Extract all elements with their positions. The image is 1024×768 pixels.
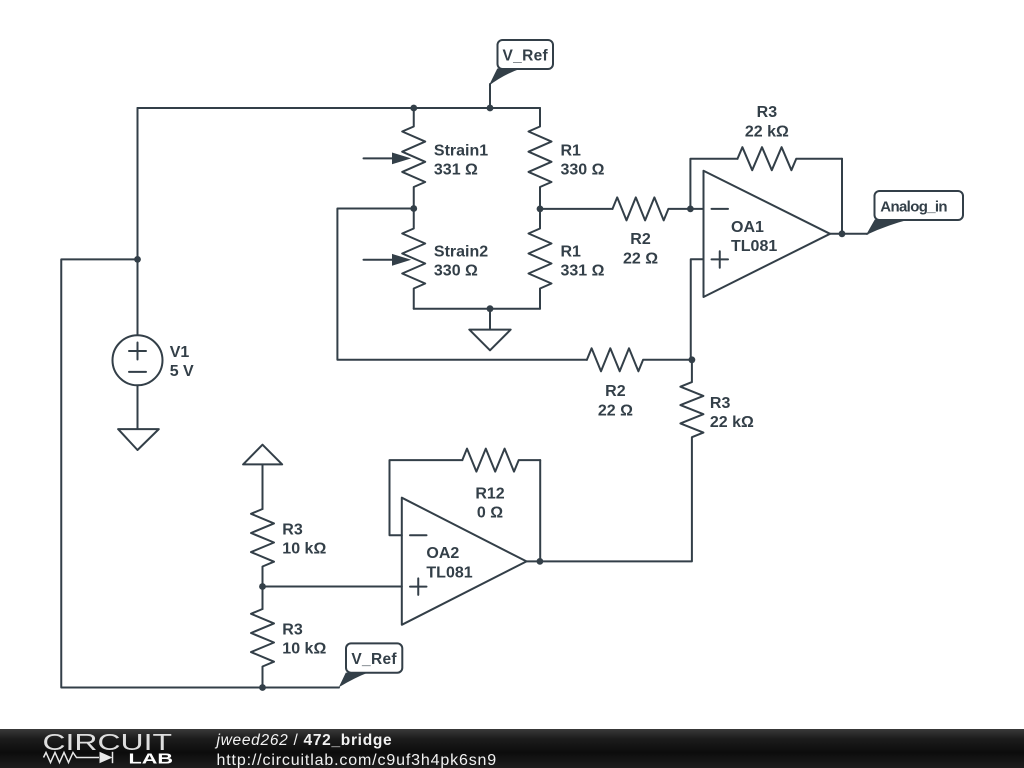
svg-text:Strain2: Strain2	[434, 243, 488, 260]
svg-text:330 Ω: 330 Ω	[434, 263, 478, 280]
resistor R3 10k upper	[251, 509, 274, 609]
flag box V_Ref top	[498, 40, 554, 69]
wire bridge mid-right to R2	[540, 208, 613, 210]
svg-text:R2: R2	[630, 231, 651, 248]
wire V_Ref stub	[489, 84, 491, 108]
op-amp OA1 plus symbol	[712, 251, 729, 268]
node dot top-left	[410, 105, 417, 112]
wire OA2 feedback loop	[390, 460, 463, 535]
node dot plus/R3	[689, 356, 696, 363]
resistor R12	[462, 449, 540, 472]
svg-text:jweed262 / 472_bridge: jweed262 / 472_bridge	[215, 732, 393, 749]
svg-text:22 kΩ: 22 kΩ	[710, 414, 754, 431]
resistor R2 upper	[613, 197, 704, 220]
svg-text:R3: R3	[282, 622, 303, 639]
flag pointer Analog_in	[866, 220, 909, 236]
svg-text:Analog_in: Analog_in	[880, 198, 947, 215]
svg-text:22 kΩ: 22 kΩ	[745, 123, 789, 140]
svg-text:R3: R3	[710, 395, 731, 412]
svg-text:http://circuitlab.com/c9uf3h4p: http://circuitlab.com/c9uf3h4pk6sn9	[217, 752, 498, 768]
resistor R3 22k vertical	[540, 360, 704, 562]
V1 minus symbol	[129, 371, 146, 373]
op-amp OA2 minus symbol	[410, 534, 427, 536]
arrowhead Strain2	[392, 254, 411, 266]
logo resistor-diode squiggle	[44, 752, 113, 763]
ground V1 triangle	[118, 429, 159, 450]
svg-text:OA2: OA2	[426, 545, 459, 562]
footer bar	[0, 729, 1024, 768]
svg-text:LAB: LAB	[129, 750, 174, 767]
node dot bottom rail	[259, 684, 266, 691]
wire R12 down to output node	[539, 460, 541, 561]
svg-text:R1: R1	[561, 142, 582, 159]
supply up arrow	[243, 445, 282, 465]
wire supply arrow stem	[262, 464, 264, 509]
resistor R2 lower	[587, 348, 692, 371]
op-amp OA1 minus symbol	[712, 208, 729, 210]
svg-text:22 Ω: 22 Ω	[598, 402, 633, 419]
wire V1 bottom to ground	[137, 385, 139, 429]
op-amp OA2 body	[402, 498, 527, 625]
wire OA2 plus input	[263, 586, 402, 588]
svg-text:10 kΩ: 10 kΩ	[282, 641, 326, 658]
svg-text:V_Ref: V_Ref	[351, 651, 397, 668]
svg-text:22 Ω: 22 Ω	[623, 250, 658, 267]
node dot OA2 output	[537, 558, 544, 565]
wire top rail	[138, 107, 541, 109]
flag pointer V_Ref bottom	[339, 673, 368, 688]
svg-text:V_Ref: V_Ref	[503, 47, 549, 64]
wire bridge bottom rail	[414, 308, 540, 310]
ground bridge triangle	[469, 330, 510, 351]
wire OA1 feedback up	[690, 159, 737, 209]
logo diode triangle	[100, 752, 113, 763]
svg-text:5 V: 5 V	[170, 363, 194, 380]
potentiometer arrow Strain1	[364, 157, 395, 159]
node dot bridge bottom	[487, 305, 494, 312]
svg-text:R12: R12	[475, 485, 504, 502]
node dot OA1 output	[839, 230, 846, 237]
node dot mid-right	[537, 206, 544, 213]
flag box V_Ref bottom	[346, 643, 402, 672]
wire feedback down to output	[841, 159, 843, 234]
wire OA1 plus input	[691, 259, 704, 360]
svg-text:TL081: TL081	[426, 564, 472, 581]
svg-text:OA1: OA1	[731, 219, 764, 236]
flag box Analog_in	[875, 191, 964, 220]
V1 plus symbol	[129, 343, 146, 360]
svg-text:R1: R1	[561, 243, 582, 260]
svg-text:331 Ω: 331 Ω	[561, 263, 605, 280]
flag pointer V_Ref top	[489, 69, 521, 86]
svg-text:R3: R3	[757, 104, 778, 121]
wire left outer vertical to V1	[137, 108, 139, 335]
voltage source V1 circle	[113, 335, 163, 385]
svg-text:R2: R2	[605, 383, 626, 400]
svg-text:330 Ω: 330 Ω	[561, 162, 605, 179]
node dot top V_Ref	[487, 105, 494, 112]
arrowhead Strain1	[392, 153, 411, 165]
resistor R1 330	[529, 108, 552, 209]
node dot V1 tap	[134, 256, 141, 263]
svg-text:R3: R3	[282, 521, 303, 538]
svg-text:0 Ω: 0 Ω	[477, 504, 503, 521]
svg-text:331 Ω: 331 Ω	[434, 162, 478, 179]
wire bridge mid-left branch	[337, 209, 587, 360]
potentiometer arrow Strain2	[364, 259, 395, 261]
resistor Strain2	[402, 209, 425, 309]
resistor R3 10k lower	[251, 609, 274, 688]
node dot divider mid	[259, 583, 266, 590]
resistor R1 331	[529, 209, 552, 309]
svg-text:Strain1: Strain1	[434, 142, 488, 159]
wire OA2 output	[527, 560, 540, 562]
node dot mid-left	[410, 205, 417, 212]
op-amp OA1 body	[704, 171, 831, 297]
svg-text:10 kΩ: 10 kΩ	[282, 541, 326, 558]
resistor Strain1	[402, 108, 425, 209]
node dot OA1 minus	[687, 206, 694, 213]
wire ground stem bridge	[489, 309, 491, 330]
svg-text:V1: V1	[170, 344, 190, 361]
svg-text:TL081: TL081	[731, 238, 777, 255]
resistor R3 22k feedback	[738, 147, 843, 170]
op-amp OA2 plus symbol	[410, 578, 427, 595]
wire V1 tap to left rail	[61, 259, 339, 687]
wire OA1 output	[830, 233, 868, 235]
